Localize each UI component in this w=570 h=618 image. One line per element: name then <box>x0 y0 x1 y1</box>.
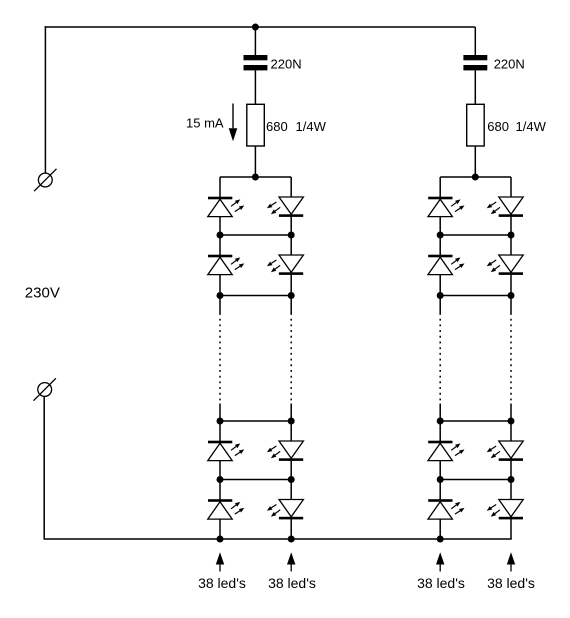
svg-text:680: 680 <box>266 119 288 134</box>
svg-text:38 led's: 38 led's <box>487 575 535 591</box>
svg-text:220N: 220N <box>494 56 525 71</box>
svg-text:38 led's: 38 led's <box>417 575 465 591</box>
svg-text:38 led's: 38 led's <box>268 575 316 591</box>
svg-text:220N: 220N <box>271 56 302 71</box>
svg-text:680: 680 <box>487 119 509 134</box>
svg-text:38 led's: 38 led's <box>198 575 246 591</box>
svg-text:1/4W: 1/4W <box>516 119 547 134</box>
svg-text:15 mA: 15 mA <box>186 116 224 131</box>
svg-text:1/4W: 1/4W <box>296 119 327 134</box>
svg-text:230V: 230V <box>25 284 60 301</box>
